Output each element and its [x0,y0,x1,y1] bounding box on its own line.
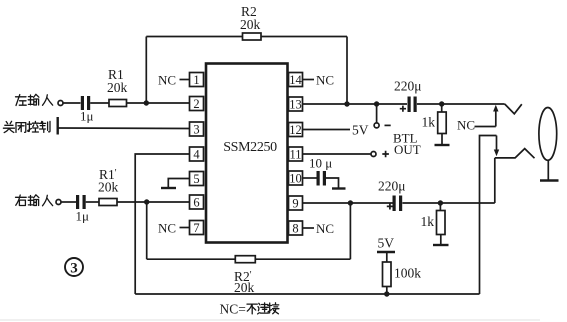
pin 14 box [289,73,303,87]
wire NC to switch arrow [475,126,496,128]
wire pin11 to plus terminal [303,153,372,155]
pin 12 box [289,123,303,137]
label 关闭控制 (shutdown control) [3,121,50,132]
ground R3 [441,134,443,145]
svg-text:1: 1 [193,73,199,87]
svg-text:10: 10 [289,172,302,186]
wire lower jack vertical [494,158,496,203]
wire R2' loop bottom right [255,258,350,260]
svg-text:NC: NC [316,73,334,88]
wire cap to jack lower [402,202,494,204]
node junction R1'/pin6/R2' [144,199,149,204]
pin 6 box [190,195,204,209]
node 1k branch [439,101,444,106]
resistor R1 body [109,100,127,107]
earpiece base bar [540,179,559,181]
svg-text:SSM2250: SSM2250 [223,140,277,155]
resistor R4 1k body [437,211,446,235]
wire bottom rail [135,293,479,295]
svg-text:220μ: 220μ [394,79,422,94]
terminal shutdown bar [57,117,59,135]
wire node to R3 [441,104,443,112]
terminal minus [374,123,379,128]
svg-text:NC: NC [158,73,176,88]
pin 9 box [289,196,303,210]
pin 13 box [289,97,303,111]
svg-text:100k: 100k [394,266,421,281]
wire NC to pin1 [180,79,190,81]
capacitor C5 220u plates [393,196,396,212]
svg-text:5: 5 [193,172,199,186]
wire NC to pin7 [180,227,190,229]
arrow upper jack switch [495,111,497,127]
resistor R5 100k body [383,262,392,287]
wire pin10 to cap [303,177,317,179]
pin 1 box [190,73,204,87]
svg-text:14: 14 [289,73,302,87]
wire [86,201,99,203]
pin 4 box [190,147,204,161]
svg-text:NC: NC [158,221,176,236]
wire bottom rail to lower jack switch [480,136,497,295]
svg-text:5V: 5V [352,123,369,138]
label plus sign [382,151,389,158]
svg-text:4: 4 [193,148,200,162]
wire pin12 to 5V [303,129,351,131]
capacitor C3 220u plates [408,97,411,113]
pin 8 box [289,221,303,235]
svg-text:13: 13 [289,98,302,112]
wire pin9 row [303,202,393,204]
svg-text:20k: 20k [98,180,119,195]
svg-text:8: 8 [292,222,298,236]
node R2'/pin9 [348,200,353,205]
earpiece stem [547,160,549,179]
svg-text:1μ: 1μ [76,209,90,224]
wire node to R4 [439,203,441,211]
svg-text:11: 11 [289,148,301,162]
node 100k/bottom rail [384,291,389,296]
wire cap to jack [417,103,505,105]
svg-text:12: 12 [289,123,302,137]
svg-text:NC: NC [316,221,334,236]
node 1k branch lower [438,200,443,205]
svg-text:1k: 1k [421,214,435,229]
resistor R1' body [99,199,117,206]
resistor R3 1k body [438,112,447,134]
svg-text:6: 6 [193,196,199,210]
label minus sign [385,124,391,126]
pin 7 box [190,221,204,235]
svg-text:NC=: NC= [220,302,246,317]
wire [61,201,76,203]
wire pin13 row [303,103,408,105]
wire pin8 to NC [303,227,315,229]
wire R2 loop top right [261,36,347,38]
ground C4 [326,178,339,188]
label 左输入 (left input) [16,94,53,105]
svg-text:220μ: 220μ [378,179,406,194]
pin 3 box [190,122,204,136]
svg-text:1k: 1k [422,115,436,130]
label plus of C5 [387,203,393,209]
svg-text:3: 3 [193,123,199,137]
pin 11 box [289,147,303,161]
svg-text:7: 7 [193,221,199,235]
wire [63,102,81,104]
jack J1 upper tip contact [505,104,522,114]
svg-text:20k: 20k [240,17,261,32]
label plus of C3 [400,106,406,112]
capacitor C4 10u plates [317,171,320,186]
jack J2 lower tip contact [495,149,535,159]
svg-text:10 μ: 10 μ [309,156,332,171]
wire [90,102,109,104]
wire minus branch [376,104,378,123]
wire R1 to pin2 [127,102,190,104]
resistor R2 body [243,33,262,40]
ground R4 [440,235,442,245]
ground pin5 [168,179,189,188]
pin 5 box [190,172,204,186]
svg-text:5V: 5V [378,236,395,251]
IC U1 SSM2250 body [206,64,288,243]
wire 5V to R5 [386,252,388,262]
capacitor C1 1u plates [81,96,84,110]
wire R5 to bottom rail [386,287,388,295]
arrow lower jack switch [496,136,498,151]
resistor R2' body [235,256,255,263]
earpiece E1 ellipse [539,107,557,160]
label 右输入 (right input) [16,195,53,206]
wire shutdown to pin3 [58,127,190,130]
svg-text:NC: NC [457,118,475,133]
terminal plus [371,152,376,157]
pin 10 box [289,171,303,185]
wire R2' loop left vertical [146,202,148,259]
wire pin4 left [135,154,189,294]
wire R2 loop top left [146,36,242,38]
terminal left input [58,101,63,106]
svg-text:OUT: OUT [394,142,421,157]
svg-text:9: 9 [292,197,298,211]
wire R2' loop right vertical [349,203,351,259]
wire R2' loop bottom left [147,258,236,260]
svg-text:20k: 20k [234,280,255,295]
wire R1' to pin6 [117,201,190,203]
figure number circled 3 [65,258,83,276]
terminal right input [56,200,61,205]
pin 2 box [190,97,204,111]
wire pin14 to NC [303,79,315,81]
node R2/pin13 [344,101,349,106]
wire R2 loop left vertical [145,37,147,104]
wire R2 loop right vertical [346,37,348,105]
svg-text:20k: 20k [107,80,128,95]
node junction R1/pin2/R2 [144,100,149,105]
scan artifact bottom line [0,319,540,321]
supply bar 5V [377,251,395,253]
svg-text:2: 2 [193,97,199,111]
capacitor C2 1u plates [76,195,79,209]
svg-text:3: 3 [70,261,78,277]
node minus branch [374,101,379,106]
svg-text:1μ: 1μ [80,109,94,124]
